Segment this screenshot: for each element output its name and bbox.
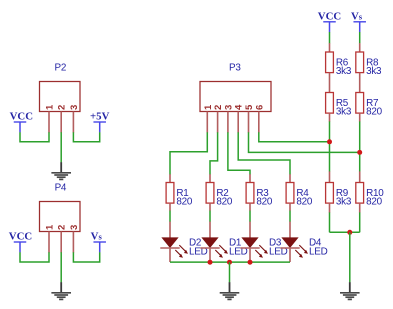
resistor R5: [326, 93, 352, 118]
wire P3 pin3 to R3: [228, 132, 250, 174]
resistor R1 lead bottom: [169, 203, 171, 211]
ground (right): [340, 282, 360, 299]
LED D4: [280, 222, 327, 262]
wire P3 pin4 to R4: [238, 132, 290, 174]
svg-text:+5V: +5V: [90, 111, 110, 123]
svg-text:Vs: Vs: [351, 10, 363, 22]
resistor R3 lead top: [249, 174, 251, 182]
resistor R1 lead top: [169, 174, 171, 182]
svg-text:VCC: VCC: [9, 231, 32, 243]
svg-text:VCC: VCC: [10, 111, 33, 123]
svg-text:P2: P2: [55, 62, 67, 73]
junction D1 cathode: [208, 260, 213, 265]
power symbol Vs (right): [351, 10, 366, 32]
junction bottom node to ground: [347, 230, 352, 235]
wire R5 to R9 node: [329, 121, 331, 171]
resistor R9: [326, 183, 352, 208]
LED D1: [200, 222, 247, 262]
ground (P4): [51, 282, 71, 299]
wire Vs to R8: [359, 32, 361, 43]
resistor R1: [166, 183, 193, 208]
svg-text:3k3: 3k3: [336, 106, 352, 117]
svg-text:820: 820: [366, 196, 382, 207]
junction Vs rail / R7-R10: [357, 150, 362, 155]
wire P4 pin3 to Vs: [73, 252, 99, 262]
lead R6-R5: [329, 73, 331, 93]
resistor R10: [356, 183, 384, 208]
svg-text:2: 2: [57, 105, 68, 110]
svg-text:1: 1: [45, 224, 56, 230]
wire P4 pin2 to ground: [60, 252, 62, 282]
svg-text:P4: P4: [55, 183, 67, 194]
resistor R7 lead bottom: [359, 113, 361, 122]
svg-text:Vs: Vs: [91, 231, 103, 243]
svg-text:3k3: 3k3: [366, 66, 382, 77]
svg-text:820: 820: [366, 106, 382, 117]
resistor R8: [356, 52, 382, 77]
power symbol +5V (P2): [90, 111, 110, 133]
ground (LED bus): [220, 282, 240, 299]
resistor R10 lead bottom: [359, 203, 361, 213]
connector P4: [40, 183, 81, 253]
wire P2 pin2 to ground: [60, 132, 62, 162]
resistor R3 lead bottom: [249, 203, 251, 211]
wire R9 to bottom node: [329, 212, 331, 232]
resistor R2 lead bottom: [209, 203, 211, 211]
svg-text:2: 2: [57, 225, 68, 230]
svg-text:1: 1: [45, 104, 56, 110]
resistor R2: [206, 183, 233, 208]
power symbol VCC (right): [318, 10, 341, 32]
power symbol VCC (P4): [9, 231, 32, 253]
svg-text:3: 3: [69, 105, 80, 110]
wire P3 pin2 to R2: [210, 132, 218, 174]
svg-text:3k3: 3k3: [336, 66, 352, 77]
wire R2 to LED: [209, 211, 211, 222]
resistor R2 lead top: [209, 174, 211, 182]
svg-text:6: 6: [254, 105, 265, 110]
power symbol VCC (P2): [10, 111, 33, 133]
junction D3 cathode: [248, 260, 253, 265]
svg-text:820: 820: [296, 196, 312, 207]
junction VCC rail / R5-R9: [327, 139, 332, 144]
wire R3 to LED: [249, 211, 251, 222]
resistor R3: [246, 183, 273, 208]
LED D2: [160, 222, 207, 262]
wire P3 pin6 to node VCC rail: [259, 132, 330, 142]
junction ground tap: [227, 260, 232, 265]
svg-text:820: 820: [256, 196, 272, 207]
wire P3 pin5 to node Vs rail: [249, 132, 360, 152]
svg-text:3: 3: [69, 225, 80, 230]
wire P2 pin3 to +5V: [73, 132, 99, 142]
wire bus to ground: [229, 262, 231, 282]
svg-text:820: 820: [216, 196, 232, 207]
lead R8-R7: [359, 73, 361, 93]
wire P4 pin1 to VCC: [20, 252, 49, 262]
svg-text:820: 820: [176, 196, 192, 207]
resistor R9 lead bottom: [329, 203, 331, 213]
resistor R6 lead top: [329, 43, 331, 52]
LED D3: [240, 222, 287, 262]
svg-text:VCC: VCC: [318, 10, 341, 22]
ground (P2): [51, 162, 71, 179]
resistor R9 lead top: [329, 171, 331, 182]
resistor R4: [286, 183, 313, 208]
connector P3: [200, 63, 271, 133]
resistor R7: [356, 93, 383, 118]
svg-text:3k3: 3k3: [336, 196, 352, 207]
wire R4 to LED: [289, 211, 291, 222]
wire LED cathode bus: [170, 261, 290, 263]
wire P3 pin1 to R1: [170, 132, 207, 174]
svg-text:LED: LED: [309, 247, 328, 258]
wire bottom node R9-R10: [330, 231, 360, 233]
wire R1 to LED: [169, 211, 171, 222]
wire R10 to bottom node: [359, 212, 361, 232]
connector P2: [40, 62, 81, 132]
svg-text:P3: P3: [229, 63, 241, 74]
resistor R6: [326, 52, 352, 77]
wire R7 to R10 node: [359, 121, 361, 171]
wire VCC to R6: [329, 32, 331, 43]
resistor R10 lead top: [359, 171, 361, 182]
wire bottom node to ground: [349, 232, 351, 282]
power symbol Vs (P4): [91, 231, 106, 253]
resistor R4 lead top: [289, 174, 291, 182]
resistor R4 lead bottom: [289, 203, 291, 211]
wire P2 pin1 to VCC: [20, 132, 49, 142]
resistor R5 lead bottom: [329, 113, 331, 122]
resistor R8 lead top: [359, 43, 361, 52]
